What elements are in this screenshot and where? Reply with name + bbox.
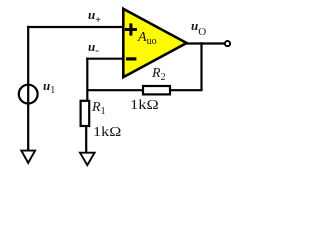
op-amp plus input symbol	[125, 23, 137, 35]
output terminal open circle	[225, 41, 230, 46]
wire: feedback from node A to R2 left	[87, 89, 143, 91]
wire: u+ net left vertical down to source u1 and ground	[27, 26, 29, 156]
label u1 (source voltage)	[43, 78, 55, 96]
op-amp U1 triangle body	[123, 9, 186, 77]
source u1 circle	[19, 85, 38, 104]
label u+ (noninverting input voltage)	[88, 7, 101, 26]
label Auo (open-loop gain) inside op-amp	[138, 30, 157, 47]
ground symbol under source u1	[21, 151, 35, 163]
wire: u+ net top horizontal from source to op-amp noninverting input	[27, 26, 123, 28]
label R2	[152, 66, 166, 83]
wire: output from op-amp apex to terminal	[185, 42, 224, 44]
label 1kOhm for R2	[130, 98, 154, 114]
resistor R1 body	[81, 101, 90, 126]
op-amp minus input symbol	[126, 57, 136, 60]
label 1kOhm for R1	[93, 125, 117, 141]
wire: u- net horizontal into inverting input	[86, 58, 123, 60]
wire: R1 bottom to ground	[85, 125, 87, 158]
label R1	[92, 100, 106, 117]
label uO (output voltage)	[191, 18, 206, 38]
ground symbol under R1	[80, 153, 95, 165]
wire: u- net vertical down to R1 top / feedback node	[86, 58, 88, 101]
label u- (inverting input voltage)	[88, 39, 99, 57]
resistor R2 body	[143, 86, 170, 94]
wire: R2 right to output junction vertical	[170, 42, 202, 90]
